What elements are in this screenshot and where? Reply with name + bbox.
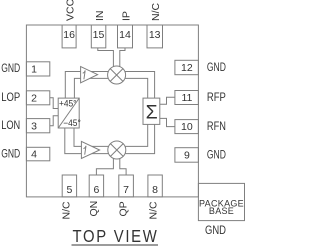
pin 3 box: [26, 119, 49, 133]
svg-text:QN: QN: [88, 201, 100, 217]
svg-text:5: 5: [66, 184, 72, 196]
pin 13 box: [147, 25, 163, 48]
wire phase shifter +45 output to top amp/mixer inner: [74, 78, 116, 98]
svg-text:IP: IP: [120, 11, 132, 21]
pin 4 box: [26, 147, 49, 161]
pin 12 box: [175, 60, 199, 74]
pin 16 box: [62, 25, 76, 48]
svg-text:6: 6: [93, 184, 99, 196]
pin 2 box: [26, 91, 49, 105]
svg-text:TOP VIEW: TOP VIEW: [73, 227, 159, 246]
svg-text:VCC: VCC: [65, 0, 77, 21]
svg-text:9: 9: [184, 150, 190, 162]
wire IN pin15 to top mixer: [98, 48, 114, 75]
pin 8 box: [148, 175, 162, 197]
svg-text:GND: GND: [205, 223, 226, 237]
wire bottom mixer to sigma lower: [117, 124, 155, 153]
summation block sigma: [143, 98, 160, 124]
wire sigma output to RFP pin11: [160, 97, 175, 104]
svg-text:BASE: BASE: [209, 206, 234, 216]
wire phase shifter +45 output to top amp/mixer outer: [65, 72, 116, 99]
svg-text:14: 14: [119, 29, 131, 41]
pin 5 box: [62, 175, 76, 197]
title TOP VIEW: [72, 227, 159, 246]
svg-text:LON: LON: [1, 120, 20, 132]
svg-text:16: 16: [63, 29, 75, 41]
svg-text:+45°: +45°: [59, 99, 77, 109]
svg-text:N/C: N/C: [150, 3, 162, 22]
svg-text:N/C: N/C: [148, 201, 160, 220]
svg-text:RFN: RFN: [207, 121, 226, 133]
pin 7 box: [119, 175, 134, 197]
svg-text:12: 12: [181, 62, 193, 74]
mixer bottom: [108, 141, 126, 159]
svg-text:GND: GND: [207, 149, 226, 161]
svg-text:−45°: −45°: [63, 118, 81, 128]
svg-text:LOP: LOP: [1, 92, 20, 104]
svg-text:IN: IN: [94, 11, 106, 22]
svg-text:13: 13: [149, 29, 161, 41]
pin 9 box: [175, 148, 199, 163]
svg-text:1: 1: [31, 64, 37, 76]
svg-text:RFP: RFP: [207, 92, 226, 104]
svg-text:3: 3: [31, 120, 37, 132]
wire QN pin6 to bottom mixer: [96, 150, 113, 175]
wire phase shifter -45 output to bottom amp/mixer outer: [65, 128, 117, 154]
amplifier A2 bottom: [81, 141, 99, 158]
pin 1 box: [26, 62, 49, 76]
svg-text:10: 10: [181, 121, 193, 133]
wire LOP pin2 to phase shifter: [50, 98, 58, 109]
wire top mixer to sigma lower: [117, 78, 148, 98]
wire IP pin14 to top mixer: [120, 48, 125, 75]
pin 6 box: [89, 175, 103, 197]
wire LON pin3 to phase shifter: [50, 116, 58, 126]
svg-text:2: 2: [31, 92, 37, 104]
svg-text:GND: GND: [1, 149, 20, 161]
wire sigma output to RFN pin10: [160, 118, 175, 126]
svg-text:7: 7: [123, 184, 129, 196]
wire top mixer to sigma upper: [117, 72, 155, 99]
svg-text:N/C: N/C: [61, 201, 73, 220]
wire bottom mixer to sigma upper: [117, 124, 148, 146]
wire QP pin7 to bottom mixer: [120, 150, 126, 175]
amplifier A1 top: [81, 67, 98, 83]
package outline: [26, 25, 198, 197]
mixer top: [108, 66, 126, 84]
svg-text:GND: GND: [1, 63, 20, 75]
phase shifter box +45/-45: [58, 98, 81, 128]
pin 14 box: [118, 25, 133, 48]
svg-text:4: 4: [31, 149, 37, 161]
svg-text:15: 15: [93, 29, 105, 41]
package base box: [198, 183, 244, 220]
pin 15 box: [91, 25, 106, 48]
svg-text:GND: GND: [207, 62, 226, 74]
svg-text:8: 8: [152, 184, 158, 196]
pin 11 box: [175, 91, 199, 105]
svg-text:QP: QP: [118, 201, 130, 216]
svg-text:11: 11: [181, 92, 192, 104]
svg-text:Σ: Σ: [146, 102, 158, 124]
wire phase shifter -45 output to bottom amp/mixer inner: [74, 128, 117, 146]
pin 10 box: [175, 120, 199, 134]
